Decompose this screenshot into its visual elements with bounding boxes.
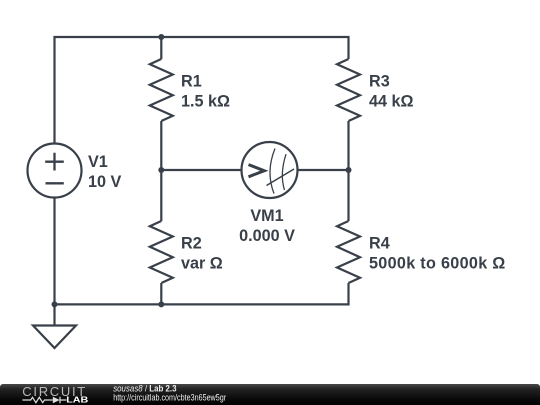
svg-text:LAB: LAB (66, 395, 88, 404)
svg-text:5000k to 6000k Ω: 5000k to 6000k Ω (369, 255, 506, 273)
node right junction (346, 167, 352, 173)
wire R2 to bottom (160, 283, 162, 304)
wire middle node to R2 (160, 170, 162, 221)
wire R1 to mid node (160, 121, 162, 170)
svg-text:V1: V1 (88, 153, 108, 171)
svg-text:1.5 kΩ: 1.5 kΩ (181, 93, 230, 111)
wire middle top lead (160, 37, 162, 59)
node top junction (158, 34, 164, 40)
credit line 1 (113, 383, 177, 394)
svg-text:R4: R4 (369, 234, 390, 252)
label R4 5000k to 6000k Ohm (369, 234, 506, 272)
resistor R1 (150, 59, 173, 121)
svg-text:44 kΩ: 44 kΩ (369, 93, 414, 111)
wire left lower + bottom + right lower lead (55, 198, 349, 305)
wire mid node to voltmeter (161, 169, 241, 171)
wire voltmeter to right column (298, 169, 349, 171)
svg-text:0.000 V: 0.000 V (239, 227, 295, 245)
svg-text:R1: R1 (181, 72, 202, 90)
svg-text:var Ω: var Ω (181, 255, 223, 273)
node middle junction (158, 167, 164, 173)
footer bar (0, 384, 540, 405)
label R2 var Ohm (181, 234, 223, 272)
wire R3 to right node (347, 121, 349, 170)
credit line 2 url (113, 393, 226, 403)
label R1 1.5 kOhm (181, 72, 230, 110)
svg-text:http://circuitlab.com/cbte3n65: http://circuitlab.com/cbte3n65ew5gr (113, 393, 226, 403)
wire right node to R4 (347, 170, 349, 221)
resistor R4 (337, 221, 360, 283)
resistor R2 (150, 221, 173, 283)
node bottom-middle junction (158, 301, 164, 307)
logo resistor-diode doodle (22, 397, 66, 403)
wire left upper + top + right upper lead (55, 37, 349, 144)
label VM1 0.000 V (239, 207, 295, 245)
ground (33, 304, 76, 348)
resistor R3 (337, 59, 360, 121)
node bottom-left junction (52, 301, 58, 307)
label V1 10 V (88, 153, 122, 191)
voltmeter VM1 (242, 142, 298, 198)
svg-text:R3: R3 (369, 72, 390, 90)
label R3 44 kOhm (369, 72, 414, 110)
svg-text:R2: R2 (181, 234, 202, 252)
svg-text:10 V: 10 V (88, 173, 122, 191)
svg-text:VM1: VM1 (250, 207, 283, 225)
voltage source V1 (28, 144, 82, 198)
